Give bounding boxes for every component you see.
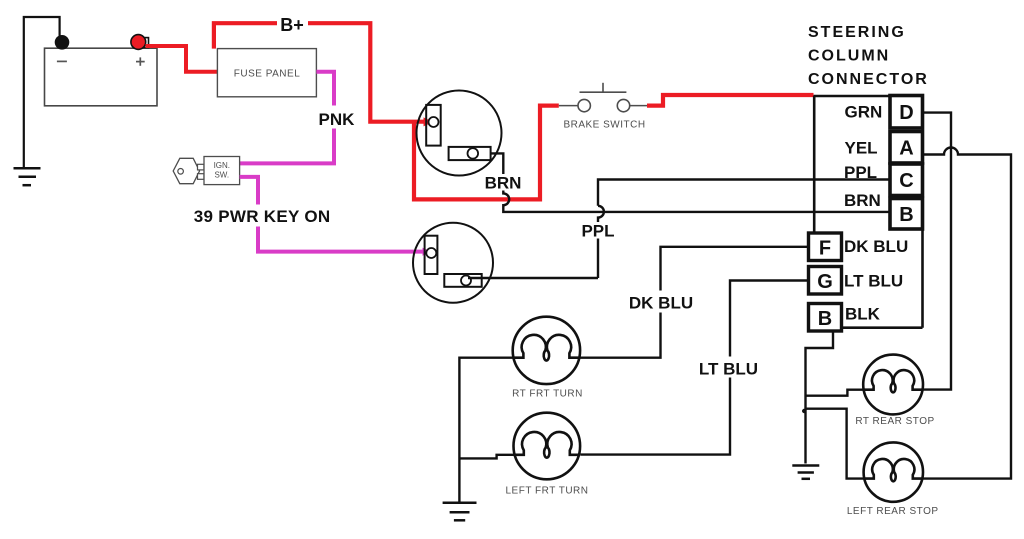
svg-text:CONNECTOR: CONNECTOR <box>808 71 929 88</box>
svg-text:BRN: BRN <box>844 191 881 210</box>
svg-text:LEFT REAR STOP: LEFT REAR STOP <box>847 506 939 517</box>
svg-text:BRAKE SWITCH: BRAKE SWITCH <box>563 120 645 131</box>
svg-text:G: G <box>817 271 833 293</box>
brake switch <box>559 83 647 131</box>
pin B2 <box>809 304 842 332</box>
wire YEL connector A to left rear stop <box>923 148 1012 479</box>
label GRN <box>845 103 883 122</box>
pin F <box>809 233 842 261</box>
label 39 PWR KEY ON <box>194 207 331 226</box>
svg-text:C: C <box>899 170 913 192</box>
label LT BLU (connector) <box>844 272 903 291</box>
svg-text:D: D <box>899 102 913 124</box>
svg-text:DK BLU: DK BLU <box>844 237 908 256</box>
lamp RT FRT TURN <box>512 317 583 400</box>
label B+ <box>277 13 308 35</box>
svg-text:PPL: PPL <box>581 222 614 241</box>
label PNK <box>319 110 356 129</box>
svg-text:LT BLU: LT BLU <box>699 360 758 379</box>
label DK BLU (connector) <box>844 237 908 256</box>
wire 39 PWR KEY ON ignition switch to flasher (pink) <box>240 177 432 256</box>
label YEL <box>845 139 878 158</box>
battery negative terminal <box>55 35 70 50</box>
wire DK BLU connector F to right front turn <box>580 247 809 358</box>
svg-text:RT REAR STOP: RT REAR STOP <box>855 416 934 427</box>
svg-text:BLK: BLK <box>845 305 881 324</box>
svg-text:STEERING: STEERING <box>808 24 906 41</box>
svg-text:LT BLU: LT BLU <box>844 272 903 291</box>
svg-text:PPL: PPL <box>844 163 877 182</box>
wire PPL flasher to connector C <box>468 180 890 279</box>
svg-text:YEL: YEL <box>845 139 878 158</box>
steering column connector outline <box>814 96 923 328</box>
svg-text:B+: B+ <box>280 15 304 35</box>
wire PNK fuse panel to ignition switch (pink) <box>240 72 334 164</box>
wire GRN connector D to right rear stop <box>923 113 952 390</box>
label BLK <box>845 305 881 324</box>
pin D <box>890 96 923 129</box>
svg-text:PNK: PNK <box>319 110 356 129</box>
svg-text:BRN: BRN <box>485 174 522 193</box>
ground (front lamps) <box>443 503 477 521</box>
wire BLK connector B to ground <box>802 331 864 479</box>
fuse panel <box>217 49 316 97</box>
steering column connector title <box>808 24 929 88</box>
wire LT BLU connector G to left front turn <box>581 281 809 455</box>
svg-text:B: B <box>818 308 832 330</box>
svg-text:DK BLU: DK BLU <box>629 294 693 313</box>
wire B+ feed (red) fuse panel to flasher and brake switch <box>214 23 814 199</box>
svg-text:COLUMN: COLUMN <box>808 48 890 65</box>
pin B <box>890 199 923 230</box>
lamp LEFT REAR STOP <box>847 442 939 517</box>
label PPL <box>581 222 614 241</box>
ground (battery) <box>14 168 41 185</box>
lamp RT REAR STOP <box>855 355 934 427</box>
svg-text:SW.: SW. <box>214 171 229 180</box>
label DK BLU <box>629 294 693 313</box>
pin G <box>809 267 842 295</box>
hazard flasher <box>413 223 493 303</box>
lamp LEFT FRT TURN <box>506 413 589 497</box>
battery positive terminal <box>131 35 149 50</box>
wire front turn lamps to ground <box>459 358 513 502</box>
label BRN <box>485 174 522 193</box>
label PPL (connector) <box>844 163 877 182</box>
wire BRN flasher to connector B <box>491 153 890 212</box>
svg-text:A: A <box>899 138 913 160</box>
label BRN (connector) <box>844 191 881 210</box>
pin A <box>890 132 923 164</box>
label LT BLU <box>699 360 758 379</box>
wire battery negative to ground <box>24 17 60 167</box>
svg-text:FUSE PANEL: FUSE PANEL <box>234 68 301 79</box>
pin C <box>890 164 923 196</box>
battery <box>45 48 158 106</box>
svg-text:RT FRT TURN: RT FRT TURN <box>512 389 583 400</box>
svg-text:GRN: GRN <box>845 103 883 122</box>
turn signal flasher <box>417 91 502 176</box>
ground (rear lamps) <box>792 466 819 479</box>
svg-text:F: F <box>819 238 831 260</box>
svg-text:39 PWR KEY ON: 39 PWR KEY ON <box>194 207 331 226</box>
wire battery positive to fuse panel (red) <box>146 46 218 72</box>
ignition switch IGN SW <box>204 157 240 185</box>
svg-text:IGN.: IGN. <box>214 161 230 170</box>
svg-text:LEFT FRT TURN: LEFT FRT TURN <box>506 486 589 497</box>
ignition switch key <box>173 158 204 183</box>
svg-text:B: B <box>899 204 913 226</box>
